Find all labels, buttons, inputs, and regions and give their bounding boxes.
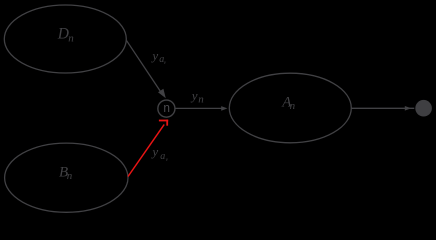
svg-text:n: n	[290, 100, 296, 112]
label y_a_v (lower)	[150, 144, 168, 163]
svg-text:n: n	[198, 93, 204, 105]
svg-text:y: y	[190, 88, 198, 103]
ellipse B_n	[5, 143, 128, 212]
wire node n to A_n (arrow)	[175, 106, 228, 111]
terminal dot	[415, 100, 432, 117]
ellipse D_n	[4, 5, 126, 73]
svg-text:y: y	[150, 48, 158, 63]
wire A_n to terminal dot (arrow)	[351, 106, 414, 111]
ellipse A_n	[229, 73, 351, 143]
label y_n	[190, 88, 205, 106]
svg-text:v: v	[164, 60, 167, 66]
svg-text:D: D	[57, 25, 69, 42]
red arrowhead (corner style)	[159, 120, 168, 126]
svg-text:n: n	[163, 100, 170, 115]
svg-text:a: a	[160, 151, 165, 162]
wire D_n to node n (arrow)	[126, 40, 166, 98]
svg-text:y: y	[150, 144, 158, 159]
svg-text:n: n	[68, 32, 74, 44]
node n (circle)	[158, 100, 175, 117]
svg-text:n: n	[67, 170, 73, 182]
label y_a_v (upper)	[150, 48, 166, 66]
svg-text:v: v	[166, 157, 169, 163]
red wire B_n to node n	[128, 125, 164, 177]
